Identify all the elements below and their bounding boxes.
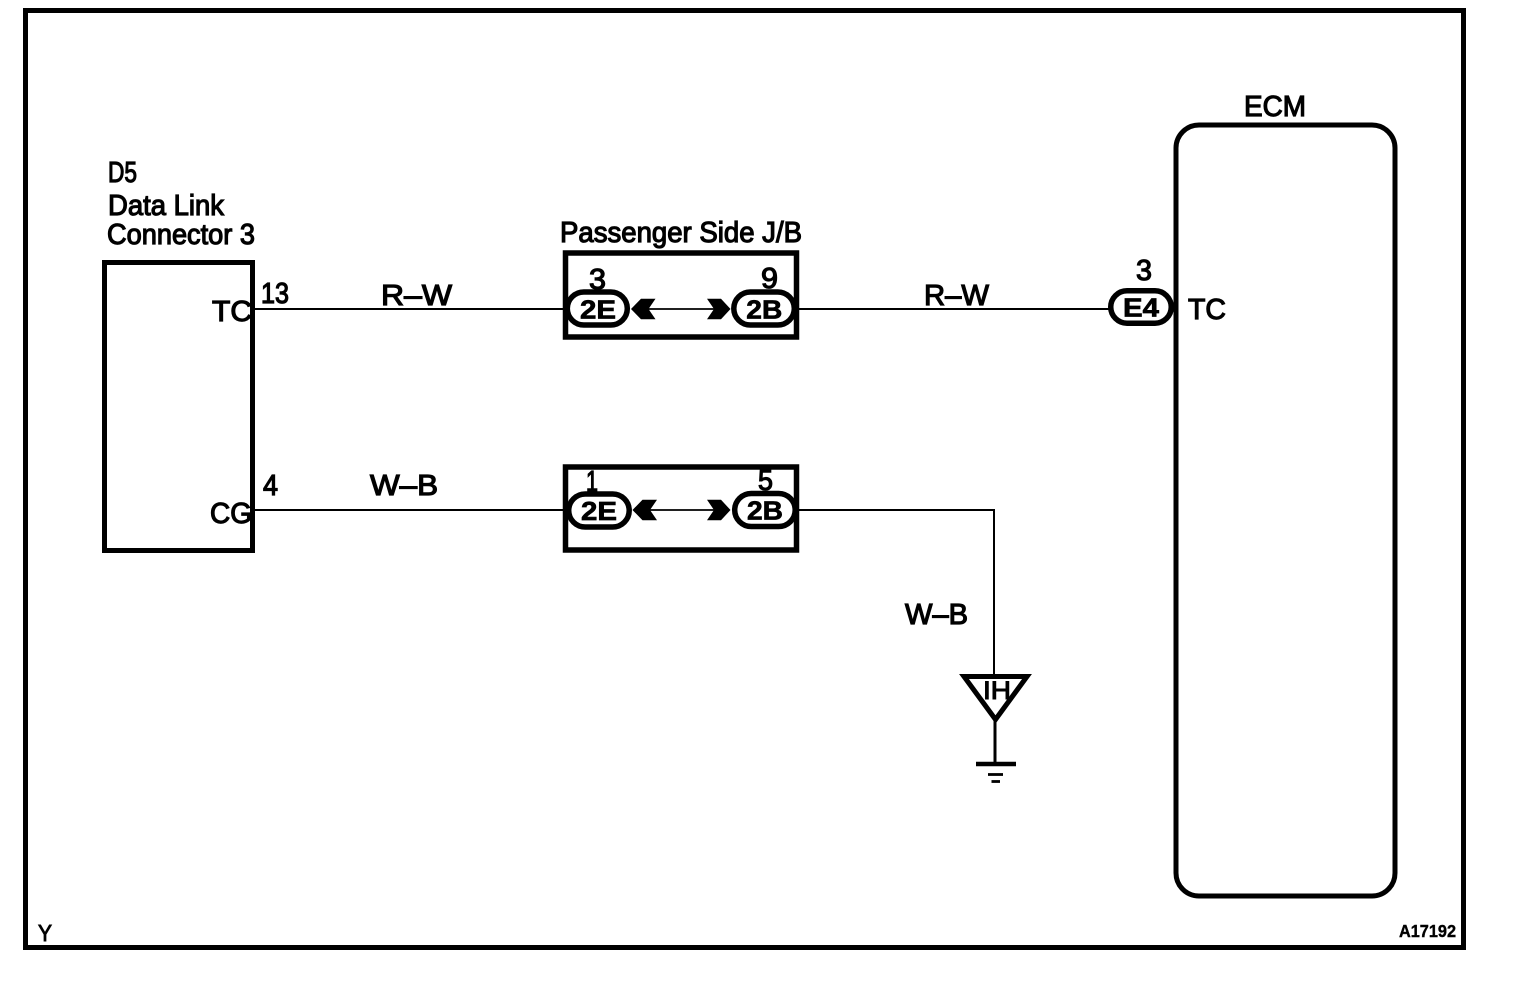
connector oval E4 (1111, 291, 1172, 324)
svg-text:R–W: R–W (381, 280, 453, 312)
svg-text:TC: TC (1188, 294, 1226, 326)
svg-text:2E: 2E (580, 295, 616, 325)
connector D5 box (105, 263, 253, 551)
arrow left (top) (631, 299, 656, 319)
svg-text:A17192: A17192 (1399, 921, 1456, 941)
wire J/B to ECM (797, 308, 1111, 310)
svg-text:R–W: R–W (924, 280, 990, 312)
svg-text:E4: E4 (1123, 293, 1160, 323)
wire CG to J/B lower (255, 509, 568, 511)
wire TC to J/B (255, 308, 567, 310)
svg-text:2B: 2B (746, 295, 782, 325)
connector oval 2B top (734, 292, 795, 325)
arrow right (top) (707, 299, 731, 319)
svg-text:Passenger Side J/B: Passenger Side J/B (560, 217, 802, 249)
wire between arrows bottom (648, 509, 716, 511)
connector oval 2E bottom (569, 494, 630, 527)
svg-text:IH: IH (983, 677, 1011, 705)
junction block box bottom (566, 467, 797, 550)
arrow left (bottom) (633, 500, 658, 520)
svg-text:Data Link: Data Link (108, 190, 224, 222)
svg-text:TC: TC (212, 296, 252, 328)
wire 2B to ground corner (796, 510, 994, 674)
wire between arrows top (647, 308, 716, 310)
svg-text:2B: 2B (747, 496, 783, 526)
arrow right (bottom) (707, 500, 731, 520)
connector oval 2B bottom (735, 494, 796, 527)
svg-text:W–B: W–B (905, 599, 968, 631)
ground connector triangle IH (964, 677, 1027, 720)
junction block box top (566, 253, 797, 337)
ECM box (1176, 125, 1395, 896)
svg-text:2E: 2E (581, 496, 617, 526)
wire triangle to ground (994, 721, 997, 765)
svg-text:13: 13 (261, 278, 289, 310)
svg-text:Y: Y (38, 920, 52, 946)
svg-text:W–B: W–B (370, 470, 438, 502)
svg-text:D5: D5 (108, 157, 137, 189)
connector D5 label (107, 157, 255, 251)
svg-text:ECM: ECM (1244, 91, 1306, 123)
svg-text:Connector 3: Connector 3 (107, 219, 255, 251)
ground symbol (976, 762, 1016, 767)
svg-text:CG: CG (210, 498, 252, 530)
svg-text:4: 4 (263, 470, 278, 502)
svg-text:3: 3 (1136, 255, 1152, 287)
connector oval 2E top (567, 292, 627, 325)
